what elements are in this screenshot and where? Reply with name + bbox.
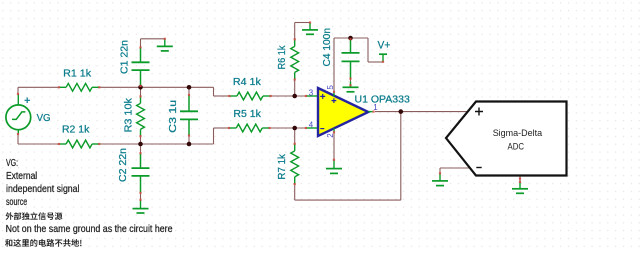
node B junction — [187, 85, 192, 90]
label C1 22n — [120, 40, 131, 74]
wire node B right — [189, 86, 214, 88]
svg-text:2: 2 — [326, 133, 335, 137]
Sigma-Delta ADC block — [446, 102, 567, 176]
wire R1 to node A — [99, 86, 140, 88]
note line independent signal — [6, 184, 80, 195]
label C2 22n — [118, 148, 129, 182]
resistor R2 — [59, 140, 99, 148]
svg-text:C2 22n: C2 22n — [118, 148, 129, 182]
wire VG bottom lead — [17, 134, 19, 144]
resistor R5 — [229, 124, 270, 132]
wire ADC minus down — [439, 168, 441, 173]
resistor R4 — [229, 92, 270, 100]
wire C4 node right — [351, 37, 369, 39]
resistor R1 — [59, 83, 99, 91]
wire node C to node D — [141, 143, 190, 145]
wire C2 to ground — [140, 193, 142, 200]
wire R4 to op-amp pin 3 — [271, 95, 306, 97]
capacitor C3 — [180, 95, 198, 136]
pin number 1 — [373, 103, 377, 112]
wire R2 to node C — [99, 143, 140, 145]
svg-text:ADC: ADC — [508, 141, 525, 151]
note line waibu duli xinhaoyuan — [6, 212, 63, 220]
capacitor C1 — [132, 47, 150, 87]
svg-text:Sigma-Delta: Sigma-Delta — [493, 128, 543, 138]
label R3 10k — [123, 97, 134, 132]
resistor R3 — [137, 96, 145, 136]
wire R5 to op-amp pin 4 — [270, 127, 307, 129]
label V+ — [378, 39, 391, 51]
label C3 1u — [168, 100, 179, 133]
svg-text:C4 100n: C4 100n — [322, 28, 333, 67]
note line he zheli de dianlu bu gongdi — [5, 239, 82, 247]
ground at C2 — [133, 200, 149, 213]
svg-text:R7 1k: R7 1k — [277, 153, 288, 179]
op-amp pin 4 stub — [306, 127, 317, 129]
svg-text:External: External — [6, 171, 37, 182]
svg-text:R6 1k: R6 1k — [277, 45, 288, 70]
V+ supply terminal — [379, 54, 387, 62]
wire R6 bottom to pin3 node — [294, 80, 296, 97]
svg-text:C1 22n: C1 22n — [120, 40, 131, 74]
wire R3 bottom to node C — [140, 136, 142, 144]
wire bend down to R4 row — [213, 87, 215, 96]
label R4 1k — [233, 77, 262, 88]
wire R7 bottom down — [294, 184, 296, 200]
svg-text:VG: VG — [37, 113, 51, 124]
wire C4 node to pin5 — [334, 37, 351, 39]
wire R6 to ground — [295, 22, 310, 24]
pin number 4 — [309, 120, 314, 129]
node C junction — [138, 142, 143, 147]
label R6 1k — [277, 45, 288, 70]
node D junction — [187, 142, 192, 147]
svg-text:3: 3 — [309, 88, 314, 97]
svg-text:source: source — [6, 197, 27, 208]
svg-text:R1 1k: R1 1k — [63, 68, 92, 79]
label R1 1k — [63, 68, 92, 79]
wire ADC bottom pin — [519, 177, 521, 182]
svg-text:R4 1k: R4 1k — [233, 77, 262, 88]
wire top rail left — [18, 86, 59, 88]
svg-text:R2 1k: R2 1k — [62, 125, 90, 136]
wire pin4 node to R7 — [294, 128, 296, 144]
ground at ADC minus input — [432, 173, 448, 185]
ground at ADC bottom — [512, 182, 528, 193]
ground at C1 — [157, 39, 173, 51]
label R7 1k — [277, 153, 288, 179]
pin3 node junction — [292, 94, 297, 99]
wire ADC minus — [440, 167, 471, 169]
pin4 node junction — [292, 126, 297, 131]
svg-text:independent signal: independent signal — [6, 184, 80, 195]
label R2 1k — [62, 125, 90, 136]
wire node B to C3 top — [188, 87, 190, 95]
wire bend up to R5 row — [213, 128, 215, 144]
wire op-amp output — [375, 111, 401, 113]
pin number 2 — [326, 133, 335, 137]
wire to V+ terminal — [368, 61, 383, 63]
C4 V+ node junction — [348, 36, 353, 41]
svg-text:V+: V+ — [378, 39, 391, 51]
note line source — [6, 197, 27, 208]
wire pin5 down — [333, 38, 335, 92]
wire node A to node B — [141, 86, 190, 88]
ground at R6 — [302, 23, 318, 35]
svg-text:C3 1u: C3 1u — [168, 100, 179, 133]
op-amp U1 triangle — [318, 88, 368, 136]
wire C1 up — [140, 39, 142, 48]
wire VG top lead — [17, 87, 19, 94]
wire C4 bottom to ground — [350, 79, 352, 82]
op-amp pin 5 stub — [333, 92, 335, 96]
wire bottom rail left — [18, 143, 59, 145]
svg-text:VG:: VG: — [6, 158, 18, 169]
wire down to V+ — [367, 38, 369, 62]
ground at C4 — [343, 82, 359, 92]
label R5 1k — [233, 109, 261, 120]
note line External — [6, 171, 37, 182]
wire node A to R3 top — [140, 87, 142, 96]
pin number 5 — [326, 85, 335, 90]
resistor R7 — [291, 144, 299, 184]
label U1 OPA333 — [355, 94, 411, 105]
capacitor C2 — [132, 153, 150, 193]
op-amp pin 2 stub — [333, 128, 335, 132]
wire to R5 — [214, 127, 230, 129]
ground at op-amp pin 2 — [326, 160, 342, 174]
resistor R6 — [291, 39, 299, 79]
wire to R4 — [214, 95, 230, 97]
wire C1 to ground — [141, 38, 165, 40]
svg-text:4: 4 — [309, 120, 314, 129]
wire feedback bottom — [295, 199, 401, 201]
op-amp output stub — [368, 111, 372, 113]
output node junction — [399, 109, 404, 114]
voltage source VG — [6, 94, 31, 134]
capacitor C4 — [342, 38, 360, 79]
wire R6 top up — [294, 23, 296, 40]
wire node D right — [189, 143, 214, 145]
svg-text:U1 OPA333: U1 OPA333 — [355, 94, 411, 105]
svg-text:5: 5 — [326, 85, 335, 90]
wire C3 bottom to node D — [188, 136, 190, 145]
wire output node to ADC + — [401, 111, 467, 113]
wire node C to C2 — [140, 144, 142, 153]
terminal marks — [17, 21, 521, 201]
wire pin2 to ground — [333, 132, 335, 160]
wire feedback up to output node — [400, 112, 402, 201]
op-amp pin 3 stub — [306, 95, 317, 97]
label C4 100n — [322, 28, 333, 67]
label VG — [37, 113, 51, 124]
note line VG: — [6, 158, 18, 169]
node A junction — [138, 85, 143, 90]
svg-text:Not on the same ground as the: Not on the same ground as the circuit he… — [6, 224, 173, 235]
pin number 3 — [309, 88, 314, 97]
note line Not on the same ground — [6, 224, 173, 235]
svg-text:R5 1k: R5 1k — [233, 109, 261, 120]
svg-text:R3 10k: R3 10k — [123, 97, 134, 132]
